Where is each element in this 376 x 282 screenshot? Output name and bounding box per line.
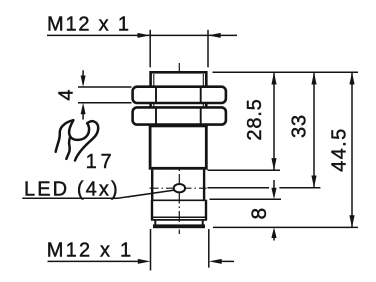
bottom extension line left <box>150 229 152 271</box>
wrench right horn and handle right edge <box>75 121 98 160</box>
bottom dimension line left part <box>48 260 140 262</box>
svg-text:17: 17 <box>86 151 116 173</box>
wrench jaw mouth <box>69 120 89 140</box>
dimension line top M12 <box>47 34 237 36</box>
wrench handle left edge <box>66 137 70 159</box>
LED hole <box>174 184 185 192</box>
arrowhead right-pointing bottom <box>138 259 151 264</box>
main barrel housing <box>150 126 206 168</box>
arrowhead left-pointing bottom <box>209 259 222 264</box>
arrowhead right-pointing at left extension <box>138 33 151 38</box>
dimension line 33 <box>311 72 316 187</box>
dimension 8 upper arrow <box>271 180 276 199</box>
connector top line <box>153 199 206 201</box>
connector lower narrow section <box>155 220 202 225</box>
hex nut 2 <box>133 107 226 124</box>
bottom dimension line right part <box>220 260 234 262</box>
svg-text:M12 x 1: M12 x 1 <box>47 239 134 261</box>
dimension line 44.5 <box>349 72 354 227</box>
connector bottom cap <box>153 224 205 228</box>
svg-text:28.5: 28.5 <box>244 98 266 140</box>
right top extension line <box>213 71 359 73</box>
extension line top-left <box>149 30 151 68</box>
svg-text:4: 4 <box>55 89 77 100</box>
svg-text:44.5: 44.5 <box>329 127 351 172</box>
dimension 4 extension line upper <box>78 86 132 88</box>
dimension line 28.5 <box>271 72 276 170</box>
thread barrel <box>151 72 207 127</box>
svg-text:33: 33 <box>289 114 311 138</box>
dimension 4 extension line lower <box>78 102 132 104</box>
extension line top-right <box>207 30 209 68</box>
LED ring section <box>152 170 204 200</box>
horizontal centerline through LED <box>150 187 207 189</box>
svg-text:LED (4x): LED (4x) <box>24 179 120 201</box>
svg-text:8: 8 <box>248 208 271 220</box>
extension line 33 bottom with gap <box>208 187 321 189</box>
right bottom extension line <box>213 226 358 228</box>
extension line 28.5 bottom <box>208 169 281 171</box>
LED leader diagonal <box>118 190 174 198</box>
svg-text:M12 x 1: M12 x 1 <box>47 14 131 36</box>
dimension 4 lower arrow <box>81 103 86 120</box>
wrench symbol outer left wave <box>56 120 74 152</box>
connector coupling block <box>151 200 207 220</box>
arrowhead left-pointing at right extension <box>208 33 221 38</box>
dimension 8 lower arrow <box>271 227 276 240</box>
extension line 8 top <box>210 198 282 200</box>
dimension 4 upper arrow <box>81 70 86 87</box>
hex nut 1 <box>133 87 226 103</box>
vertical centerline <box>178 63 180 234</box>
LED leader underline <box>22 197 117 199</box>
bottom extension line right <box>208 229 210 268</box>
